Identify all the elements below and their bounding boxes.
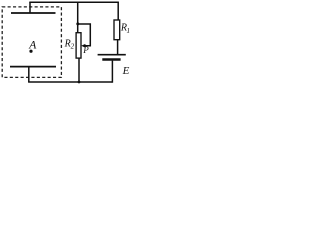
wire R2 bottom lead	[78, 58, 80, 82]
wiper arrow head P	[81, 44, 85, 48]
wire bottom rail	[28, 81, 112, 83]
resistor R2 box	[76, 33, 81, 58]
particle A dot	[29, 50, 32, 53]
svg-text:2: 2	[71, 43, 75, 51]
junction dot wiper	[76, 22, 79, 25]
svg-text:E: E	[122, 65, 130, 77]
battery long plate	[98, 54, 126, 56]
wire R1 to battery	[117, 40, 119, 55]
junction dot bottom	[78, 81, 81, 84]
svg-text:P: P	[82, 45, 89, 55]
wire top plate lead	[29, 2, 31, 13]
wire right branch top	[117, 2, 119, 20]
wire top rail	[29, 1, 119, 3]
wire middle branch down	[77, 2, 79, 32]
battery short plate	[102, 58, 120, 60]
resistor R1 box	[114, 20, 120, 40]
capacitor bottom plate	[10, 66, 56, 68]
dashed enclosure box	[2, 7, 61, 78]
wire wiper lead	[78, 24, 91, 46]
svg-text:1: 1	[127, 27, 131, 35]
capacitor top plate	[11, 12, 56, 14]
wire battery bottom lead	[111, 61, 113, 83]
wire bottom plate lead	[28, 67, 30, 82]
svg-text:A: A	[28, 38, 37, 52]
